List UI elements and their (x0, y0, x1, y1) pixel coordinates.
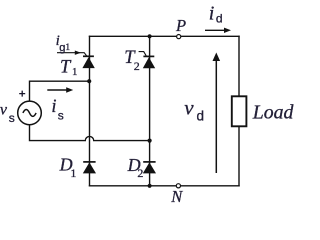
diode D2 triangle (143, 162, 156, 173)
ac source VS circle (18, 101, 42, 125)
ac source sine symbol (23, 109, 36, 116)
wire right leg (238, 36, 240, 186)
svg-text:N: N (170, 187, 183, 206)
junction dot source/leg2 (148, 139, 152, 143)
wire source top to leg 1 (30, 81, 90, 101)
svg-text:v: v (184, 95, 194, 119)
node P terminal circle (177, 35, 181, 39)
thyristor T2 gate lead (139, 52, 147, 56)
svg-text:1: 1 (65, 43, 70, 53)
svg-text:2: 2 (134, 59, 140, 73)
thyristor T2 triangle (143, 57, 155, 68)
svg-text:1: 1 (72, 66, 78, 78)
voltage vd arrow (215, 60, 217, 174)
svg-text:P: P (175, 16, 186, 35)
svg-text:Load: Load (252, 101, 294, 123)
thyristor T1 triangle (82, 57, 94, 68)
svg-text:s: s (9, 111, 15, 125)
wire top rail P (90, 35, 240, 37)
current id arrow (205, 29, 225, 31)
thyristor T2 cathode bar (143, 55, 154, 57)
svg-text:v: v (0, 102, 8, 119)
svg-text:T: T (60, 58, 72, 78)
load resistor box (232, 96, 247, 126)
wire source bottom to leg 2 (with crossover hop) (30, 125, 150, 141)
svg-text:s: s (58, 109, 64, 123)
current is arrow (47, 89, 67, 91)
wire bottom rail N (90, 185, 240, 187)
diode D1 cathode bar (83, 161, 95, 163)
wire leg 2 (T2/D2) (149, 36, 151, 186)
svg-text:i: i (51, 97, 56, 117)
svg-text:i: i (209, 3, 215, 25)
svg-text:2: 2 (137, 166, 143, 180)
svg-text:d: d (216, 11, 223, 25)
svg-text:d: d (197, 108, 205, 123)
thyristor T1 cathode bar (83, 55, 94, 57)
wire leg 1 (T1/D1) (89, 36, 91, 186)
plus sign of source (19, 91, 25, 97)
svg-text:1: 1 (70, 166, 76, 180)
thyristor T1 gate lead (57, 53, 87, 57)
junction dot leg2/top rail (148, 34, 152, 38)
gate current ig1 arrowhead (75, 51, 81, 55)
junction dot leg2/bottom rail (148, 184, 152, 188)
diode D1 triangle (83, 162, 96, 173)
node N terminal circle (176, 184, 180, 188)
junction dot source/leg1 (87, 79, 91, 83)
diode D2 cathode bar (143, 161, 155, 163)
